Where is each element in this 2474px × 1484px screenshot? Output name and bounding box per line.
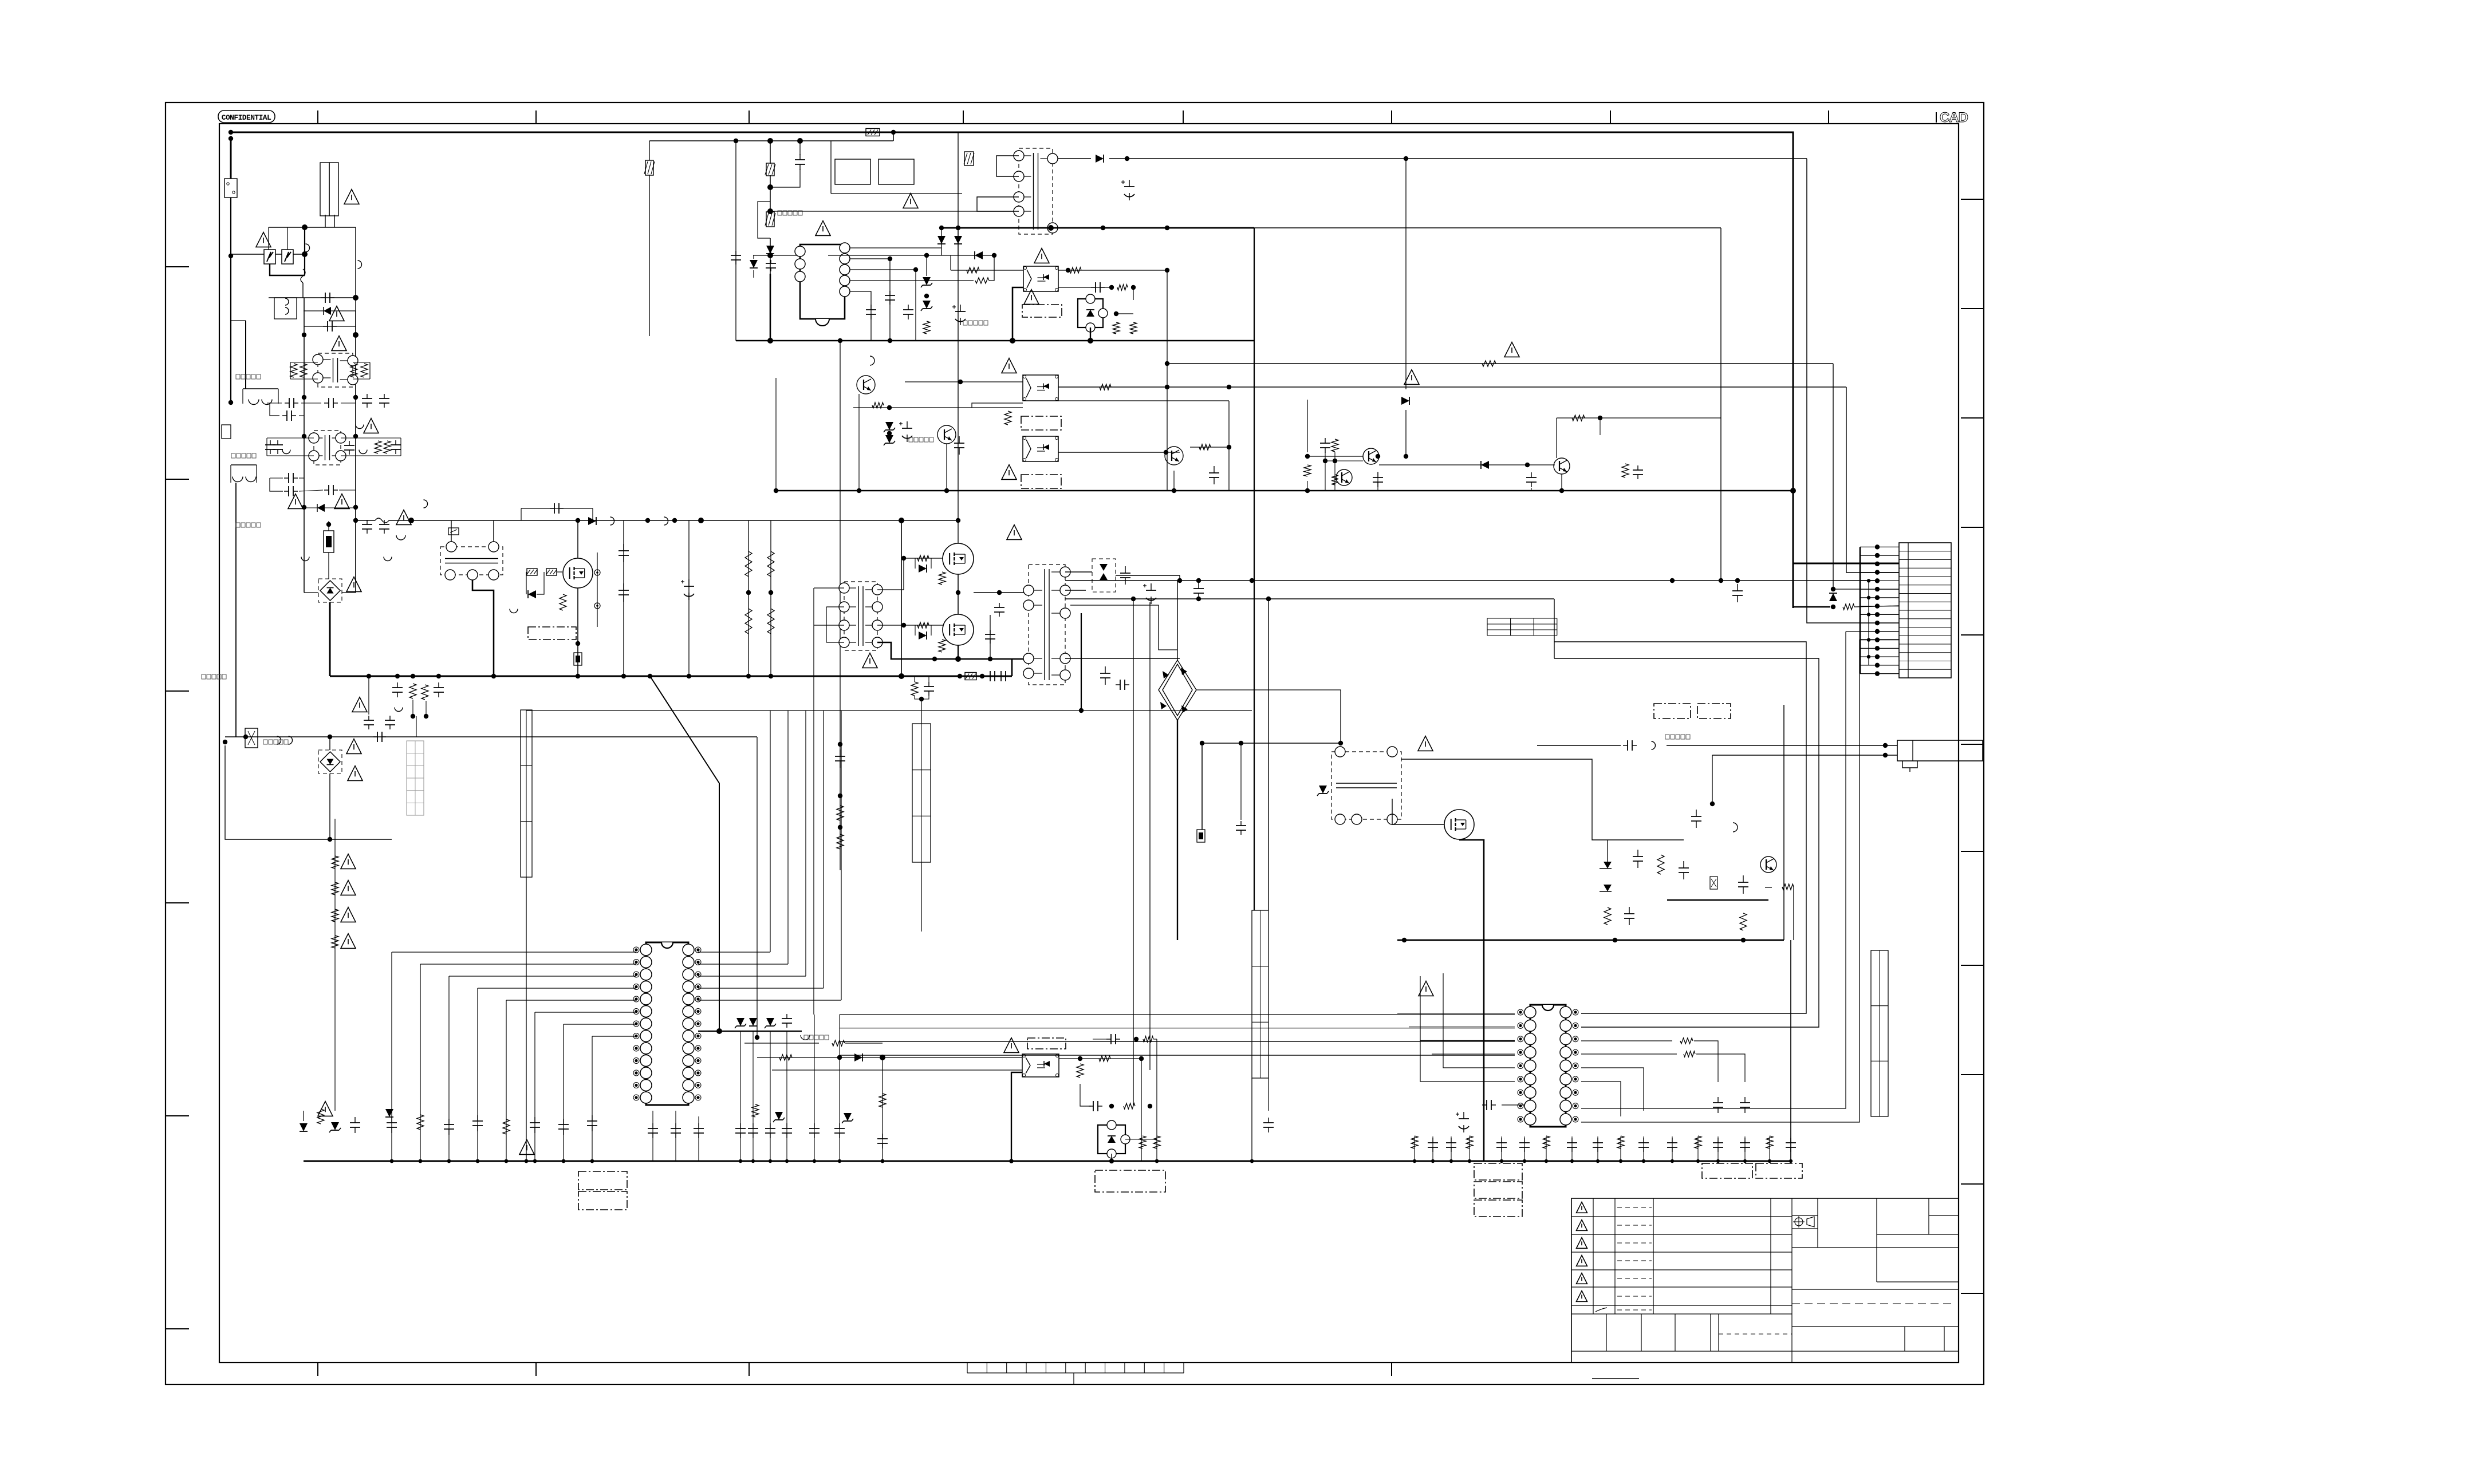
junction (887, 405, 892, 410)
wire (786, 1031, 787, 1161)
junction (980, 674, 984, 678)
MOSFET Q3 (943, 614, 974, 645)
resistor (1100, 384, 1111, 390)
wire (649, 141, 650, 160)
wire (339, 490, 356, 491)
junction (955, 656, 961, 662)
resistor (745, 551, 752, 577)
wire to control lower (719, 783, 720, 1031)
polarized capacitor (899, 421, 912, 442)
junction (576, 641, 580, 646)
X-capacitor C1 (320, 163, 338, 216)
junction (1165, 226, 1169, 230)
junction (1431, 1159, 1435, 1163)
wire (526, 877, 527, 1161)
wire (1377, 472, 1378, 491)
resistor (409, 684, 416, 698)
wire (278, 389, 279, 404)
coil mark (358, 261, 362, 269)
junction (1468, 1159, 1471, 1163)
polarized capacitor (1143, 583, 1156, 604)
junction (1079, 708, 1084, 713)
junction (302, 395, 306, 400)
fuse resistor (574, 653, 582, 665)
wire (1405, 410, 1407, 456)
wire IC2 pin (506, 1000, 636, 1001)
wire 42V rail (1065, 580, 1877, 581)
resistor (1617, 1136, 1624, 1148)
junction (1109, 285, 1114, 290)
wire (325, 215, 326, 227)
resistor (1199, 444, 1211, 450)
junction (888, 256, 892, 261)
junction (1619, 1159, 1622, 1163)
warning mark (341, 854, 356, 869)
capacitor (1667, 1138, 1677, 1152)
junction (1139, 1056, 1144, 1061)
connector CN2 (1897, 740, 1983, 772)
diac (324, 307, 331, 315)
junction (958, 380, 963, 384)
junction (1741, 938, 1746, 942)
capacitor (1786, 1138, 1796, 1152)
junction (525, 1159, 529, 1163)
wire (770, 141, 771, 164)
junction (1165, 361, 1169, 366)
junction (419, 1159, 423, 1163)
resistor (1622, 464, 1629, 477)
junction (1768, 1159, 1771, 1163)
wire (325, 507, 356, 508)
wire IC2 pin up (698, 1000, 841, 1001)
junction (887, 431, 892, 436)
resistor (1843, 604, 1854, 610)
pin junction (1867, 638, 1870, 641)
warning mark (364, 419, 379, 433)
wire (814, 587, 844, 589)
resistor (1130, 322, 1137, 334)
wire (1065, 571, 1092, 573)
capacitor (273, 440, 283, 454)
junction (353, 434, 358, 439)
junction (698, 518, 704, 523)
annotation text (231, 453, 256, 458)
wire (268, 227, 269, 250)
PWM controller IC1 (795, 243, 850, 326)
capacitor (1740, 1097, 1750, 1113)
pin junction (1875, 646, 1880, 650)
capacitor (379, 520, 389, 534)
diode (884, 422, 895, 432)
wire to CN2 pin2 (1712, 755, 1897, 756)
wire return row (776, 490, 1793, 491)
main transformer T4 (1023, 565, 1070, 685)
junction (590, 1159, 594, 1163)
wire return bus (1397, 940, 1784, 941)
wire drop E (1141, 1059, 1142, 1161)
transistor Q15b (1554, 458, 1570, 474)
connector pin lead (1860, 665, 1899, 666)
legend table (1487, 618, 1557, 636)
capacitor (618, 583, 629, 602)
revision triangle (1577, 1238, 1587, 1249)
capacitor (866, 305, 876, 319)
wire (230, 465, 231, 483)
wire (304, 310, 356, 311)
wire surge gnd (270, 264, 305, 275)
wire stub (1571, 1136, 1573, 1161)
diode (884, 435, 895, 445)
wire (242, 389, 243, 404)
wire (451, 520, 452, 542)
junction (302, 251, 308, 257)
connector pin lead (1860, 656, 1899, 657)
wire left drop (235, 483, 237, 737)
wire (893, 132, 894, 141)
wire (814, 1015, 815, 1161)
wire (1581, 1053, 1677, 1055)
junction (755, 1035, 759, 1040)
warning mark (396, 510, 411, 525)
connector pin lead (1860, 597, 1899, 598)
wire (748, 520, 749, 676)
shunt regulator U3 (1098, 1120, 1130, 1158)
resistor (832, 1040, 845, 1046)
wire (1070, 605, 1177, 650)
junction (1155, 1159, 1159, 1163)
junction (857, 488, 861, 493)
junction (1883, 743, 1888, 748)
wire (597, 552, 598, 627)
thermistor TH1 (448, 528, 459, 535)
junction (1196, 597, 1201, 601)
wire (563, 1024, 564, 1161)
wire (328, 521, 329, 531)
junction (901, 623, 906, 627)
wire (775, 378, 777, 491)
wire IC2 pin (449, 976, 636, 977)
junction (353, 295, 359, 301)
wire snubber (521, 508, 593, 509)
resistor (1070, 267, 1081, 273)
wire (1116, 575, 1180, 576)
resistor (1153, 1136, 1160, 1148)
wire (1058, 287, 1112, 288)
wire (826, 607, 827, 642)
revision triangle (1577, 1202, 1587, 1213)
MOSFET Q1 (563, 558, 593, 588)
polarized capacitor (1456, 1112, 1469, 1132)
capacitor (1567, 1138, 1577, 1152)
junction (1131, 285, 1136, 290)
wire (931, 558, 932, 569)
wire (1179, 575, 1180, 581)
resistor (317, 1109, 324, 1124)
wire to CN2 (1667, 745, 1897, 746)
warning mark (332, 336, 346, 351)
junction (424, 714, 428, 719)
wire (850, 291, 871, 341)
PFC inductor T2 (440, 542, 503, 580)
pin junction (1875, 663, 1880, 668)
connector pin lead (1860, 606, 1899, 607)
wire (368, 676, 369, 715)
capacitor (284, 473, 298, 483)
junction (838, 825, 842, 830)
wire to CN1 (1793, 563, 1899, 565)
wire (526, 572, 527, 594)
boxed resistor (965, 673, 976, 680)
wire (839, 1015, 840, 1161)
connector pin lead (1860, 546, 1899, 547)
warning mark (318, 1102, 333, 1116)
wire stub (1643, 1136, 1644, 1161)
connector pin lead (1860, 580, 1899, 581)
diode (954, 236, 962, 244)
wire (267, 437, 314, 439)
wire (287, 227, 288, 250)
diode (385, 1109, 393, 1117)
junction (1376, 454, 1380, 459)
capacitor (671, 1123, 681, 1138)
resistor (1124, 1103, 1135, 1109)
wire sec out (1401, 759, 1684, 840)
junction (913, 267, 918, 272)
resistor (767, 551, 774, 577)
wire (1268, 599, 1269, 910)
wire (915, 270, 916, 341)
block outline (1021, 416, 1061, 430)
capacitor (648, 1123, 658, 1138)
coil mark (246, 477, 256, 482)
wire stub (1672, 1136, 1673, 1161)
junction (1131, 597, 1136, 601)
wire (416, 716, 417, 737)
resistor (1766, 1136, 1773, 1148)
coil mark (233, 477, 243, 482)
wire rectified line (649, 140, 893, 141)
pin junction (1875, 570, 1880, 574)
junction (958, 674, 962, 678)
wire (905, 381, 1023, 382)
wire drop D (1149, 602, 1151, 1070)
wire standby gnd (941, 227, 1254, 229)
junction (302, 434, 306, 439)
resistor (879, 1094, 886, 1107)
junction (390, 1159, 394, 1163)
wire IC2 pin up (698, 952, 770, 953)
junction (1109, 1159, 1114, 1163)
wire (1537, 745, 1621, 746)
wire (850, 259, 890, 341)
wire IC2 to IC3 (840, 1041, 1515, 1042)
wire (770, 175, 771, 202)
wire (1607, 840, 1608, 862)
resistor (1113, 322, 1120, 334)
wire (799, 141, 801, 155)
junction (924, 253, 929, 258)
wire (1065, 590, 1086, 591)
wire (304, 592, 318, 593)
capacitor (1089, 1101, 1102, 1111)
wire (950, 255, 951, 270)
junction (353, 395, 358, 400)
wire (826, 606, 844, 607)
wire (270, 478, 283, 491)
wire (845, 1043, 883, 1044)
resistor (1482, 361, 1496, 366)
junction (1596, 1159, 1600, 1163)
wire (290, 362, 318, 363)
wire (304, 507, 317, 508)
wire (1307, 481, 1308, 491)
block outline (1697, 704, 1731, 719)
wire stub (1546, 1136, 1547, 1161)
connector pin lead (1860, 572, 1899, 573)
junction (891, 130, 896, 135)
wire (828, 255, 994, 256)
junction (328, 837, 332, 842)
controller IC2 (633, 942, 701, 1105)
resistor (1331, 475, 1338, 485)
wire rail N (355, 311, 356, 593)
capacitor (434, 682, 444, 697)
junction (956, 226, 960, 230)
transistor Q15 (1760, 857, 1776, 873)
junction (899, 673, 904, 679)
wire (299, 415, 304, 416)
wire (1581, 1040, 1672, 1041)
warning mark (352, 697, 367, 712)
junction (881, 1159, 885, 1163)
junction (1323, 459, 1327, 463)
wire (1111, 1154, 1112, 1161)
diode (842, 1113, 853, 1123)
coil mark (1652, 741, 1656, 749)
junction (769, 1159, 772, 1163)
warning mark (1034, 248, 1049, 263)
boxed resistor (964, 152, 974, 165)
diode (1829, 593, 1837, 601)
wire IC2 pin up (698, 964, 788, 965)
wire (1720, 228, 1721, 581)
wire (1581, 632, 1846, 1108)
wire (972, 403, 1023, 408)
resistor array RN3 (1252, 910, 1268, 1078)
pin junction (1875, 553, 1880, 558)
wire (341, 455, 401, 456)
wire (353, 378, 370, 380)
coil mark (356, 425, 364, 429)
junction (302, 505, 306, 510)
junction (944, 488, 949, 493)
coil mark (262, 400, 272, 405)
capacitor (1496, 1138, 1507, 1152)
wire (1846, 387, 1899, 573)
boxed resistor (866, 129, 880, 136)
wire (830, 141, 832, 194)
wire IC2 pin (392, 952, 636, 953)
capacitor (694, 1123, 704, 1138)
CONFIDENTIAL stamp (218, 110, 275, 123)
wire (850, 269, 916, 270)
wire (1240, 743, 1242, 820)
wire (1554, 599, 1555, 658)
terminal E1 (222, 425, 231, 439)
wire drop C (1133, 599, 1134, 1105)
capacitor (877, 1134, 888, 1148)
wire row3 (772, 1069, 1022, 1071)
wire gate return (813, 588, 814, 1015)
wire (1783, 705, 1784, 940)
wire loop to IC3 (1554, 642, 1806, 1013)
resistor (503, 1119, 510, 1134)
wire (1173, 471, 1175, 491)
wire loop3 to IC3 (1581, 640, 1860, 1122)
pin junction (1875, 671, 1880, 676)
junction (838, 1159, 841, 1163)
warning mark (1024, 290, 1039, 305)
pin junction (1875, 654, 1880, 659)
warning mark (344, 190, 359, 204)
diac2 (317, 504, 325, 512)
wire (1196, 690, 1341, 743)
annotation text (1665, 735, 1690, 739)
junction (533, 1159, 537, 1163)
resistor (975, 278, 989, 283)
wire (915, 696, 929, 699)
wire row2 (744, 1043, 819, 1044)
polarized capacitor (681, 579, 694, 600)
wire (753, 255, 754, 259)
wire (1011, 659, 1013, 676)
wire IC3 left (1409, 1027, 1515, 1028)
resistor (1099, 1056, 1110, 1061)
wire (1251, 1078, 1252, 1161)
capacitor (321, 293, 334, 303)
wire (753, 1031, 754, 1161)
warning mark (1002, 358, 1017, 373)
resistor (1117, 285, 1128, 290)
polarized capacitor (952, 305, 966, 325)
annotation text (778, 211, 802, 215)
wire (1307, 456, 1363, 457)
wire 5VSB (1109, 158, 1807, 159)
capacitor (994, 603, 1004, 617)
wire (1531, 488, 1532, 491)
pin junction (1875, 587, 1880, 591)
wire row3 (853, 407, 1023, 408)
revision triangle (1577, 1291, 1587, 1302)
wire (1502, 1104, 1524, 1106)
bridge diode array D11 (1159, 660, 1196, 720)
annotation text (804, 1035, 829, 1040)
capacitor (364, 716, 374, 729)
junction (1177, 578, 1182, 583)
wire stub (1524, 1136, 1525, 1161)
capacitor (987, 671, 998, 681)
wire (1600, 418, 1601, 435)
wire (592, 1036, 593, 1161)
warning mark (519, 1140, 534, 1155)
shunt regulator U2 (1078, 294, 1108, 332)
opto-coupler PC1 (1023, 266, 1058, 291)
resistor (1680, 1038, 1693, 1044)
wire (915, 625, 916, 636)
fuse F1 (224, 179, 237, 198)
wire (299, 477, 304, 479)
wire (1833, 589, 1899, 590)
